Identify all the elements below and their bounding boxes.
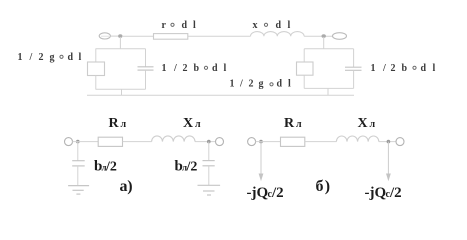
label 1 / 2 b o d l (right) <box>371 63 436 74</box>
wire right shunt loop top <box>304 48 353 50</box>
resistor RL (circuit a) <box>98 137 122 146</box>
label b) <box>316 178 331 195</box>
label x o d l <box>253 20 291 31</box>
wire bottom return rail <box>87 94 354 96</box>
arrow -jQc/2 (circuit b right) <box>386 142 391 182</box>
wire resistor RL to inductor XL (circuit b) <box>305 141 337 143</box>
terminal T6 (circuit b right) <box>396 138 404 146</box>
wire node A to resistor r·dl <box>122 35 154 37</box>
wire node B down to right shunt loop <box>323 37 325 49</box>
node C (circuit a left) <box>76 140 80 144</box>
wire node C down to capacitor <box>77 142 79 161</box>
wire T1 to node A <box>110 35 118 37</box>
wire right loop top-left vertical <box>303 49 305 62</box>
inductor x·dl <box>251 32 305 37</box>
node F (circuit b right) <box>387 140 391 144</box>
svg-text:а): а) <box>120 178 133 195</box>
node D (circuit a right) <box>207 140 211 144</box>
label -jQc/2 (left) <box>247 185 284 201</box>
wire inductor XL to node F <box>379 141 396 143</box>
label XL (circuit b) <box>358 116 376 131</box>
wire right loop stub to bottom rail <box>327 88 329 95</box>
svg-text:1/2bdl: 1/2bdl <box>371 63 436 74</box>
wire inductor XL to node D <box>195 141 216 143</box>
svg-text:bл/2: bл/2 <box>94 159 117 175</box>
svg-text:rdl: rdl <box>162 20 197 31</box>
svg-text:Rл: Rл <box>284 116 302 131</box>
wire resistor RL to inductor XL <box>123 141 152 143</box>
label XL (circuit a) <box>183 116 201 131</box>
svg-text:1/2gdl: 1/2gdl <box>18 52 82 63</box>
node A <box>118 34 122 38</box>
svg-text:1/2gdl: 1/2gdl <box>230 79 292 90</box>
resistor 1/2 g·dl (right shunt conductance box) <box>297 62 314 75</box>
label 1 / 2 g o d l (middle) <box>230 79 292 90</box>
wire capacitor to ground (circuit a left) <box>77 166 79 186</box>
label a) <box>120 178 133 195</box>
svg-text:б): б) <box>316 178 331 195</box>
svg-text:Xл: Xл <box>358 116 376 131</box>
wire right shunt loop bottom <box>304 87 353 89</box>
capacitor bL/2 (circuit a left) <box>72 161 85 166</box>
label r o d l <box>162 20 197 31</box>
svg-text:1/2bdl: 1/2bdl <box>162 63 227 74</box>
wire left shunt loop bottom <box>96 88 146 90</box>
capacitor 1/2 b·dl (right shunt) <box>345 67 362 70</box>
resistor r·dl <box>154 34 188 40</box>
svg-text:bл/2: bл/2 <box>175 159 198 175</box>
svg-text:Rл: Rл <box>109 116 127 131</box>
label 1 / 2 g o d l (left) <box>18 52 82 63</box>
ground (circuit a left) <box>68 186 89 195</box>
wire left loop stub to bottom rail <box>121 89 123 95</box>
arrow -jQc/2 (circuit b left) <box>259 142 264 182</box>
label RL (circuit a) <box>109 116 127 131</box>
wire left loop bottom-right vertical <box>145 70 147 89</box>
wire inductor to node B <box>304 35 332 37</box>
wire node A down to left shunt loop <box>119 37 121 49</box>
wire left loop top-left vertical <box>95 49 97 62</box>
terminal T1 (top-left input ellipse) <box>99 33 110 39</box>
svg-text:xdl: xdl <box>253 20 291 31</box>
wire left loop top-right vertical <box>145 49 147 67</box>
resistor 1/2 g·dl (left shunt conductance box) <box>88 62 105 76</box>
svg-text:-jQc/2: -jQc/2 <box>247 185 284 201</box>
wire right loop bottom-right vertical <box>353 70 355 88</box>
resistor RL (circuit b) <box>281 137 305 146</box>
terminal T2 (top-right output ellipse) <box>333 33 347 40</box>
terminal T5 (circuit b left) <box>248 138 256 146</box>
inductor XL (circuit b) <box>336 136 378 142</box>
wire capacitor to ground (circuit a right) <box>208 166 210 186</box>
wire resistor to inductor x·dl <box>188 35 251 37</box>
label bL/2 (circuit a left) <box>94 159 117 175</box>
inductor XL (circuit a) <box>152 136 195 142</box>
label RL (circuit b) <box>284 116 302 131</box>
wire right loop bottom-left vertical <box>303 75 305 88</box>
wire node D down to capacitor <box>208 142 210 161</box>
label bL/2 (circuit a right) <box>175 159 198 175</box>
wire T3 to resistor RL <box>73 141 99 143</box>
wire left loop bottom-left vertical <box>95 76 97 90</box>
terminal T3 (circuit a left) <box>65 138 73 146</box>
capacitor 1/2 b·dl (left shunt) <box>138 67 154 70</box>
label -jQc/2 (right) <box>365 185 402 201</box>
node E (circuit b left) <box>259 140 263 144</box>
svg-text:-jQc/2: -jQc/2 <box>365 185 402 201</box>
svg-text:Xл: Xл <box>183 116 201 131</box>
capacitor bL/2 (circuit a right) <box>203 161 215 166</box>
wire right loop top-right vertical <box>353 49 355 67</box>
ground (circuit a right) <box>198 185 221 195</box>
label 1 / 2 b o d l (middle-left) <box>162 63 227 74</box>
wire left shunt loop top <box>96 48 146 50</box>
node B <box>322 34 326 38</box>
wire T5 to resistor RL <box>256 141 281 143</box>
terminal T4 (circuit a right) <box>216 138 224 146</box>
